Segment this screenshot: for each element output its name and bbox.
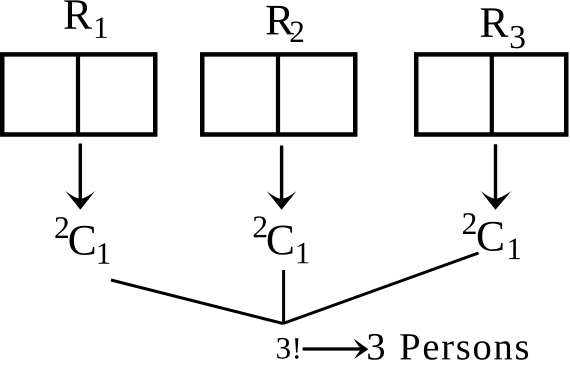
left diagonal wire from 2C1 (left) to junction <box>111 280 283 324</box>
label 2C1 (middle) <box>254 216 309 263</box>
label R3 <box>481 8 525 48</box>
label R2 <box>266 6 303 42</box>
arrow from R1 to 2C1 <box>65 144 95 210</box>
label 2C1 (right) <box>463 213 520 259</box>
right diagonal wire from junction to 2C1 (right) <box>283 253 479 324</box>
box R1 <box>2 54 155 134</box>
center vertical wire from 2C1 (middle) to junction <box>282 270 285 324</box>
divider of box R2 <box>276 56 280 133</box>
label 3 Persons <box>368 334 528 360</box>
arrow from R3 to 2C1 <box>481 144 512 210</box>
label 2C1 (left) <box>55 217 109 264</box>
arrow from 3! to 3 Persons <box>303 339 369 359</box>
box R2 <box>202 54 355 134</box>
box R3 <box>416 54 566 134</box>
arrow from R2 to 2C1 <box>267 146 297 210</box>
divider of box R1 <box>76 56 80 133</box>
label R1 <box>64 0 106 38</box>
label 3! <box>277 338 299 359</box>
divider of box R3 <box>490 56 494 133</box>
